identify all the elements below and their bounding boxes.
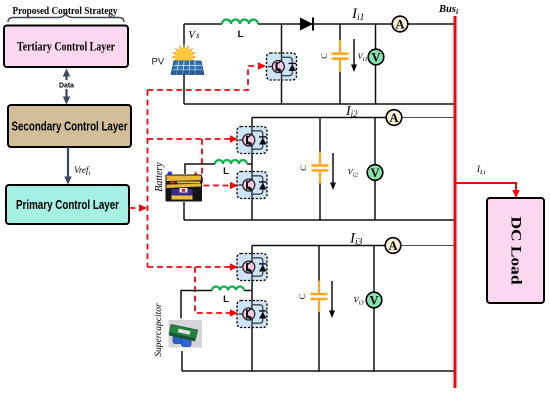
wire: battery to inductor bbox=[185, 164, 215, 174]
wire: branch1 top rail bbox=[184, 23, 455, 25]
svg-text:V: V bbox=[370, 166, 379, 180]
svg-text:Primary Control Layer: Primary Control Layer bbox=[16, 198, 119, 212]
inductor L3 bbox=[212, 287, 244, 291]
label+arrow: V_i3 bbox=[329, 281, 365, 318]
svg-text:A: A bbox=[389, 111, 398, 125]
arrowhead: into S2 bbox=[230, 135, 238, 142]
svg-text:Vrefi: Vrefi bbox=[74, 165, 91, 177]
arrow: Data (bidirectional) bbox=[63, 69, 71, 105]
BRANCH 2 : BATTERY BIDIRECTIONAL CONVERTER bbox=[184, 118, 455, 221]
bus: Bus_i (red DC bus) bbox=[454, 16, 457, 388]
svg-text:C: C bbox=[319, 53, 329, 59]
svg-text:C: C bbox=[298, 165, 308, 171]
svg-text:PV: PV bbox=[152, 57, 165, 68]
switch S1 (IGBT with diode) bbox=[267, 53, 297, 80]
wire: capacitor C1 vertical bbox=[339, 24, 341, 104]
voltmeter V2 bbox=[367, 165, 383, 181]
diode D1 bbox=[300, 18, 313, 31]
arrowhead: into DC Load bbox=[512, 190, 519, 198]
svg-text:A: A bbox=[388, 239, 397, 253]
wire: voltmeter V1 vertical bbox=[375, 24, 377, 104]
inductor L2 bbox=[215, 160, 247, 164]
block: Primary Control Layer bbox=[6, 185, 129, 224]
svg-text:Supercapcitor: Supercapcitor bbox=[154, 303, 164, 357]
svg-text:Tertiary Control Layer: Tertiary Control Layer bbox=[17, 40, 115, 54]
svg-text:A: A bbox=[395, 18, 404, 32]
svg-text:ILi: ILi bbox=[476, 164, 486, 176]
svg-text:L: L bbox=[223, 166, 229, 177]
capacitor C2 bbox=[312, 152, 329, 184]
svg-text:V: V bbox=[371, 51, 380, 65]
wire: branch2 top rail bbox=[252, 117, 394, 119]
svg-text:Vs: Vs bbox=[189, 30, 201, 41]
wire: branch1 bottom rail bbox=[184, 103, 455, 105]
arrowhead: into S4 bbox=[230, 263, 238, 270]
wire: switch chain S2/S3 vertical bbox=[251, 118, 253, 221]
wire: red dashed to switch S2 bbox=[148, 138, 232, 140]
svg-text:L: L bbox=[223, 294, 229, 305]
svg-text:Ii2: Ii2 bbox=[345, 104, 358, 119]
PV source icon bbox=[170, 43, 204, 74]
switch S3 (IGBT with diode) bbox=[237, 172, 267, 199]
arrowhead: into S1 bbox=[258, 62, 266, 69]
wire: PV vertical bottom bbox=[183, 74, 185, 104]
svg-text:C: C bbox=[297, 293, 307, 299]
arrow: Secondary to Primary (Vref_i) bbox=[64, 147, 72, 185]
label+arrow: V_i2 bbox=[330, 153, 359, 190]
arrowhead: into trunk from Primary bbox=[139, 204, 147, 211]
voltmeter V3 bbox=[366, 292, 382, 308]
capacitor C3 bbox=[311, 281, 328, 313]
wire: inductor to mid node bbox=[247, 163, 252, 165]
wire: PV vertical top bbox=[183, 24, 185, 52]
wire: red dashed from Primary box to trunk bbox=[130, 207, 142, 209]
wire: capacitor C2 vertical bbox=[319, 118, 321, 221]
svg-text:Ii1: Ii1 bbox=[351, 6, 364, 23]
BRANCH 1 : PV BOOST CONVERTER bbox=[184, 24, 455, 104]
wire: branch3 top rail bbox=[252, 245, 393, 247]
supercapacitor icon bbox=[169, 320, 203, 348]
svg-text:Vi2: Vi2 bbox=[348, 167, 359, 179]
wire: red dashed trunk vertical bbox=[147, 90, 149, 267]
arrowhead: into S3 bbox=[230, 182, 238, 189]
wire: red dashed to switch S1 bbox=[148, 66, 260, 90]
ammeter A2 bbox=[386, 110, 402, 126]
label+arrow: V_i1 bbox=[351, 39, 368, 72]
svg-text:Ii3: Ii3 bbox=[349, 231, 363, 248]
svg-text:Busi: Busi bbox=[438, 4, 459, 16]
wire: branch2 rail ammeter to bus bbox=[394, 117, 455, 119]
RED DASHED CONTROL SIGNALS bbox=[130, 66, 260, 313]
svg-text:Proposed Control Strategy: Proposed Control Strategy bbox=[13, 6, 119, 17]
svg-text:Vi3: Vi3 bbox=[354, 295, 365, 307]
wire: branch3 rail ammeter to bus bbox=[393, 245, 455, 247]
wire: battery bottom bbox=[183, 202, 185, 220]
wire: supercap bottom bbox=[181, 351, 183, 371]
wire: switch S1 vertical bbox=[281, 24, 283, 104]
battery icon bbox=[166, 171, 203, 202]
switch S5 (IGBT with diode) bbox=[237, 301, 267, 328]
block: Secondary Control Layer bbox=[8, 105, 131, 147]
wire: branch2 bottom rail bbox=[184, 219, 455, 221]
label: Data bbox=[57, 80, 76, 90]
switch S2 (IGBT with diode) bbox=[237, 127, 267, 154]
svg-text:Data: Data bbox=[59, 83, 74, 90]
wire: red dashed to switch S3 bbox=[202, 139, 231, 186]
wire: red dashed to switch S4 bbox=[148, 266, 232, 268]
ammeter A3 bbox=[385, 238, 401, 254]
svg-text:DC Load: DC Load bbox=[508, 217, 524, 285]
wire: capacitor C3 vertical bbox=[318, 246, 320, 372]
wire: inductor to mid node bbox=[244, 290, 252, 292]
capacitor C1 bbox=[332, 40, 349, 72]
wire: branch3 bottom rail bbox=[182, 370, 455, 372]
wire: supercap to inductor bbox=[181, 291, 212, 319]
voltmeter V1 bbox=[368, 49, 384, 65]
BRANCH 3 : SUPERCAPACITOR BIDIRECTIONAL CONVERTER bbox=[181, 246, 455, 372]
svg-text:Vi1: Vi1 bbox=[358, 51, 368, 63]
svg-text:Battery: Battery bbox=[154, 162, 165, 192]
svg-text:V: V bbox=[369, 294, 378, 308]
wire: red dashed to switch S5 bbox=[195, 267, 231, 313]
wire: switch chain S4/S5 vertical bbox=[251, 246, 253, 372]
wire: voltmeter V2 vertical bbox=[374, 118, 376, 221]
switch S4 (IGBT with diode) bbox=[237, 254, 267, 281]
svg-text:Secondary Control Layer: Secondary Control Layer bbox=[12, 120, 128, 134]
block: Tertiary Control Layer bbox=[4, 26, 128, 68]
ammeter A1 bbox=[392, 16, 408, 32]
inductor L1 bbox=[222, 20, 258, 25]
brace under title bbox=[8, 14, 124, 23]
wire: I_Li feed to DC Load bbox=[456, 183, 516, 191]
svg-text:L: L bbox=[238, 29, 244, 40]
block: DC Load bbox=[487, 198, 544, 303]
wire: voltmeter V3 vertical bbox=[373, 246, 375, 372]
arrowhead: into S5 bbox=[230, 309, 238, 316]
